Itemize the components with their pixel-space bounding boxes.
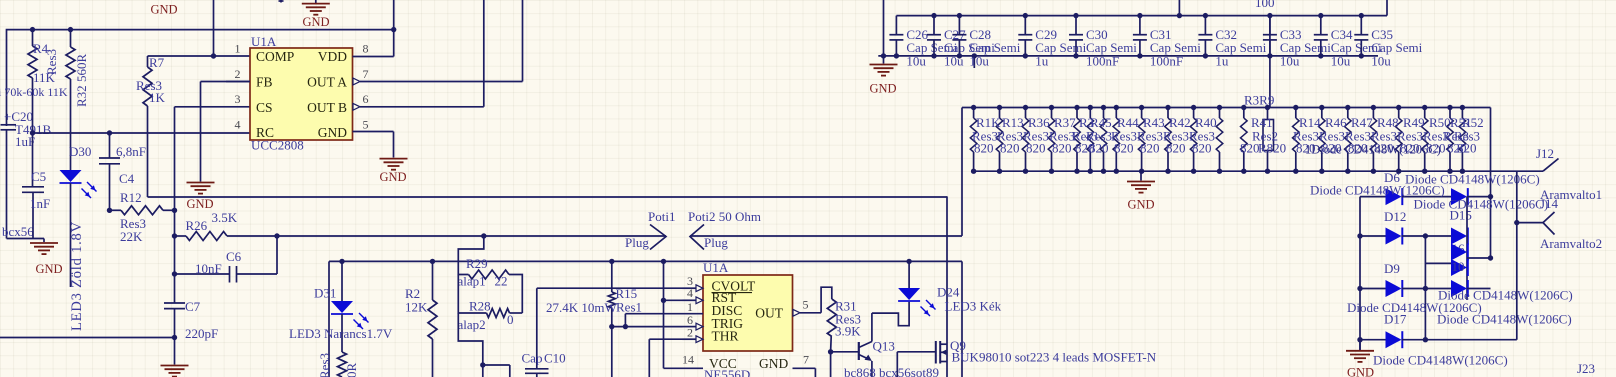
svg-text:Poti1: Poti1 bbox=[648, 209, 675, 224]
pin 8 bbox=[353, 56, 394, 58]
ground GND (U1A) bbox=[380, 158, 408, 160]
svg-text:Aramvalto2: Aramvalto2 bbox=[1540, 236, 1602, 251]
pin 4 bbox=[683, 299, 697, 301]
diode D16 bbox=[1451, 228, 1467, 245]
svg-text:VDD: VDD bbox=[318, 49, 347, 64]
diode D6 bbox=[1360, 196, 1386, 198]
svg-text:10u: 10u bbox=[1331, 54, 1351, 69]
pin 2 bbox=[683, 338, 697, 340]
wire stub below rail bbox=[973, 56, 975, 68]
svg-text:2: 2 bbox=[235, 67, 241, 81]
svg-text:R26: R26 bbox=[186, 218, 208, 233]
svg-text:4: 4 bbox=[235, 118, 241, 132]
svg-text:RC: RC bbox=[256, 125, 274, 140]
pin 5 GND bbox=[353, 131, 394, 133]
svg-text:Cap: Cap bbox=[522, 351, 543, 366]
svg-text:6: 6 bbox=[363, 92, 369, 106]
ground GND (C7) bbox=[174, 338, 176, 365]
connector J14 bbox=[1517, 222, 1543, 224]
svg-text:bcx56: bcx56 bbox=[2, 224, 34, 239]
svg-text:Plug: Plug bbox=[625, 235, 649, 250]
ground GND (res bank) bbox=[1140, 171, 1142, 180]
svg-text:COMP: COMP bbox=[256, 49, 294, 64]
wire res bank top rail bbox=[962, 107, 1491, 109]
svg-text:22: 22 bbox=[495, 274, 508, 289]
plug connector Poti1 bbox=[650, 225, 666, 250]
resistor bank R1..R52 bbox=[973, 108, 975, 119]
capacitor C34 bbox=[1320, 16, 1322, 35]
pin 5 OUT bbox=[793, 309, 800, 316]
capacitor C30 bbox=[1075, 16, 1077, 35]
svg-text:BUK98010 sot223 4 leads MOSFET: BUK98010 sot223 4 leads MOSFET-N bbox=[952, 350, 1157, 365]
svg-text:R28: R28 bbox=[469, 299, 491, 314]
wire OUT B riser bbox=[483, 0, 485, 107]
transistor Q13 bbox=[831, 351, 859, 353]
resistor R31 bbox=[821, 287, 832, 313]
svg-text:6,8nF: 6,8nF bbox=[116, 144, 146, 159]
connector J12 bbox=[1543, 159, 1559, 172]
capacitor C33 bbox=[1269, 16, 1271, 35]
svg-text:R7: R7 bbox=[149, 55, 165, 70]
wire res bank right edge bbox=[1490, 108, 1492, 197]
svg-text:Diode CD4148W(1206C): Diode CD4148W(1206C) bbox=[1414, 197, 1549, 212]
wire right edge riser bbox=[1386, 0, 1388, 16]
svg-text:GND: GND bbox=[318, 125, 347, 140]
svg-text:10u: 10u bbox=[1280, 54, 1300, 69]
svg-text:1u: 1u bbox=[1035, 54, 1049, 69]
capacitor C32 bbox=[1204, 16, 1206, 35]
wire A horizontal bbox=[148, 196, 948, 198]
svg-text:820: 820 bbox=[1089, 141, 1109, 156]
svg-text:Q13: Q13 bbox=[873, 339, 895, 354]
wire TRIG net bbox=[612, 326, 683, 328]
capacitor C29 bbox=[1024, 16, 1026, 35]
wire matrix right bbox=[1490, 197, 1492, 258]
svg-text:GND: GND bbox=[35, 262, 62, 276]
capacitor C5 bbox=[22, 186, 44, 188]
svg-text:820: 820 bbox=[1192, 141, 1212, 156]
svg-text:R3R9: R3R9 bbox=[1244, 93, 1274, 108]
transistor Q9 MOSFET bbox=[896, 352, 898, 377]
svg-text:Poti2 50 Ohm: Poti2 50 Ohm bbox=[688, 209, 761, 224]
svg-text:8: 8 bbox=[363, 42, 369, 56]
capacitor C28 bbox=[958, 16, 960, 35]
svg-text:10: 10 bbox=[1452, 259, 1465, 274]
wire matrix left drop bbox=[1359, 197, 1361, 350]
svg-text:GND: GND bbox=[869, 82, 896, 96]
svg-text:Diode CD4148W(1206C): Diode CD4148W(1206C) bbox=[1373, 353, 1508, 368]
wire RC net (pin4) bbox=[33, 132, 251, 134]
resistor R29 bbox=[458, 236, 484, 275]
svg-text:GND: GND bbox=[379, 170, 406, 184]
svg-text:0: 0 bbox=[507, 312, 514, 327]
ground GND (matrix) bbox=[1359, 340, 1361, 350]
pin 7 bbox=[793, 367, 816, 369]
svg-text:220pF: 220pF bbox=[185, 326, 218, 341]
ground GND (top) bbox=[315, 0, 317, 3]
svg-text:LED3 Narancs1.7V: LED3 Narancs1.7V bbox=[289, 326, 393, 341]
svg-text:560R: 560R bbox=[74, 54, 89, 83]
svg-text:GND: GND bbox=[1347, 366, 1374, 377]
pin 7 OUT A bbox=[353, 78, 360, 85]
svg-text:alap1: alap1 bbox=[458, 274, 486, 289]
wire R26 to plug bbox=[227, 235, 666, 237]
wire C33 riser to bank bbox=[1269, 16, 1271, 108]
node jog right bbox=[946, 196, 948, 377]
wire DISC net bbox=[624, 314, 626, 327]
svg-text:J12: J12 bbox=[1536, 146, 1554, 161]
svg-text:2: 2 bbox=[687, 326, 693, 340]
svg-text:D9: D9 bbox=[1384, 261, 1400, 276]
svg-text:12K: 12K bbox=[405, 300, 428, 315]
svg-text:U1A: U1A bbox=[251, 34, 277, 49]
wire bottom-left bbox=[0, 337, 175, 339]
svg-text:11K: 11K bbox=[33, 70, 56, 85]
pin 2 bbox=[226, 81, 250, 83]
svg-text:R820: R820 bbox=[1258, 141, 1286, 156]
wire J bus bbox=[1516, 171, 1518, 340]
capacitor C4 bbox=[109, 133, 111, 158]
wire COMP net bbox=[148, 55, 251, 57]
svg-text:D30: D30 bbox=[69, 144, 91, 159]
capacitor C7 bbox=[164, 302, 185, 304]
stub top bbox=[280, 0, 282, 3]
svg-text:4: 4 bbox=[687, 286, 693, 300]
svg-text:1Diode CD4148W(1206C): 1Diode CD4148W(1206C) bbox=[1305, 143, 1441, 157]
svg-text:820: 820 bbox=[1052, 141, 1072, 156]
svg-text:Diode CD4148W(1206C): Diode CD4148W(1206C) bbox=[1310, 183, 1445, 198]
svg-text:10u: 10u bbox=[906, 54, 926, 69]
capacitor C27 bbox=[933, 16, 935, 35]
wire THR net bbox=[649, 338, 682, 340]
svg-text:CS: CS bbox=[256, 100, 273, 115]
diode D12 bbox=[1360, 235, 1386, 237]
resistor R2 bbox=[432, 261, 434, 300]
svg-text:OUT: OUT bbox=[755, 306, 783, 321]
wire VCC riser bbox=[663, 261, 665, 368]
resistor R12 bbox=[110, 209, 122, 211]
svg-text:OUT B: OUT B bbox=[307, 100, 347, 115]
resistor R15 bbox=[611, 261, 613, 292]
diode D?b bbox=[1451, 280, 1467, 297]
svg-text:Res1: Res1 bbox=[616, 300, 642, 315]
wire OUT A riser bbox=[522, 0, 524, 82]
svg-text:820: 820 bbox=[1026, 141, 1046, 156]
svg-text:100nF: 100nF bbox=[1150, 54, 1183, 69]
capacitor C26 bbox=[895, 16, 897, 35]
resistor R28 bbox=[458, 275, 486, 314]
wire cap bank left drop bbox=[883, 0, 885, 64]
diode D9 bbox=[1360, 288, 1386, 290]
wire alap jog bbox=[458, 313, 483, 365]
pin 14 bbox=[683, 367, 704, 369]
wire res bank bottom rail bbox=[974, 170, 1543, 172]
svg-text:D12: D12 bbox=[1384, 209, 1406, 224]
wire gnd-left bbox=[7, 238, 45, 240]
svg-text:OUT A: OUT A bbox=[307, 75, 347, 90]
svg-text:1: 1 bbox=[687, 300, 693, 314]
svg-text:10u: 10u bbox=[969, 54, 989, 69]
svg-text:C5: C5 bbox=[31, 169, 46, 184]
svg-text:VCC: VCC bbox=[709, 356, 737, 371]
svg-text:3.5K: 3.5K bbox=[212, 210, 238, 225]
svg-text:22K: 22K bbox=[120, 229, 143, 244]
ground GND (cap bank) bbox=[870, 64, 898, 66]
svg-text:LED3 Zöld 1.8V: LED3 Zöld 1.8V bbox=[69, 221, 85, 331]
svg-text:1nF: 1nF bbox=[30, 196, 50, 211]
pin 1 bbox=[683, 313, 704, 315]
svg-text:R32: R32 bbox=[74, 85, 89, 107]
svg-text:5: 5 bbox=[363, 118, 369, 132]
svg-text:820: 820 bbox=[1114, 141, 1134, 156]
svg-text:THR: THR bbox=[712, 328, 739, 343]
LED D31 bbox=[341, 261, 343, 301]
svg-text:820: 820 bbox=[974, 141, 994, 156]
svg-text:J23: J23 bbox=[1577, 361, 1595, 376]
capacitor C6 bbox=[175, 273, 230, 275]
svg-text:1u: 1u bbox=[1215, 54, 1229, 69]
LED D24 bbox=[908, 261, 910, 288]
svg-text:7: 7 bbox=[363, 67, 369, 81]
svg-text:D31: D31 bbox=[314, 286, 336, 301]
svg-text:bc868 bcx56sot89: bc868 bcx56sot89 bbox=[844, 365, 939, 377]
capacitor C31 bbox=[1139, 16, 1141, 35]
wire B horizontal bbox=[329, 260, 962, 262]
svg-text:3.9K: 3.9K bbox=[835, 324, 861, 339]
svg-text:GND: GND bbox=[759, 356, 788, 371]
svg-text:820: 820 bbox=[1000, 141, 1020, 156]
wire top-left net bbox=[7, 30, 394, 126]
svg-text:alap2: alap2 bbox=[458, 317, 486, 332]
resistor R7 bbox=[147, 56, 149, 67]
pin 6 bbox=[683, 326, 697, 328]
svg-text:820: 820 bbox=[1240, 141, 1260, 156]
resistor R32 bbox=[70, 30, 72, 47]
svg-text:GND: GND bbox=[186, 197, 213, 211]
svg-text:C10: C10 bbox=[544, 351, 566, 366]
svg-text:R29: R29 bbox=[466, 256, 488, 271]
op-amp U1A UCC2808 bbox=[250, 48, 353, 140]
pin 3 bbox=[683, 287, 697, 289]
wire riser 100-label bbox=[1178, 0, 1180, 16]
svg-text:J14: J14 bbox=[1540, 196, 1559, 211]
diode stack mid bbox=[1451, 244, 1467, 261]
svg-text:1K: 1K bbox=[149, 90, 166, 105]
svg-text:GND: GND bbox=[302, 15, 329, 29]
ground GND (left) bbox=[30, 242, 58, 244]
plug connector Poti2 bbox=[690, 225, 704, 250]
ground GND (mid) bbox=[187, 182, 215, 184]
pin 6 OUT B bbox=[353, 103, 360, 110]
wire Q13 collector to D24 bbox=[872, 302, 909, 326]
svg-text:14: 14 bbox=[682, 353, 694, 367]
resistor R26 bbox=[186, 232, 227, 241]
resistor R39 (box) bbox=[1263, 120, 1274, 151]
timer U1A NE556D bbox=[703, 275, 793, 351]
svg-text:D24: D24 bbox=[937, 285, 960, 300]
svg-text:10nF: 10nF bbox=[195, 261, 222, 276]
capacitor C20 bbox=[1, 124, 17, 126]
svg-text:820: 820 bbox=[1140, 141, 1160, 156]
svg-text:C6: C6 bbox=[226, 249, 242, 264]
wire plug net right bbox=[690, 235, 962, 237]
wire B left drop bbox=[328, 261, 330, 377]
svg-text:100: 100 bbox=[1255, 0, 1275, 10]
svg-text:7: 7 bbox=[803, 353, 809, 367]
svg-text:C4: C4 bbox=[119, 171, 135, 186]
svg-text:FB: FB bbox=[256, 75, 273, 90]
svg-text:820: 820 bbox=[1457, 141, 1477, 156]
capacitor C10 bbox=[525, 368, 549, 370]
svg-text:Plug: Plug bbox=[704, 235, 728, 250]
wire cap bank bottom rail bbox=[878, 55, 1378, 57]
svg-text:Res3: Res3 bbox=[317, 353, 332, 377]
wire cap bank top rail bbox=[896, 15, 1387, 17]
resistor R4 bbox=[32, 30, 34, 46]
svg-text:1: 1 bbox=[235, 42, 241, 56]
svg-text:5: 5 bbox=[803, 298, 809, 312]
svg-text:Diode CD4148W(1206C): Diode CD4148W(1206C) bbox=[1437, 312, 1572, 327]
svg-text:C7: C7 bbox=[185, 299, 201, 314]
svg-text:100nF: 100nF bbox=[1086, 54, 1119, 69]
resistor R30 bbox=[338, 352, 347, 377]
svg-text:U1A: U1A bbox=[703, 260, 729, 275]
diode D15 bbox=[1451, 188, 1467, 205]
wire CVOLT net bbox=[537, 287, 683, 289]
svg-text:i 70k-60k 11K: i 70k-60k 11K bbox=[0, 85, 68, 99]
svg-text:820: 820 bbox=[1166, 141, 1186, 156]
svg-text:3: 3 bbox=[235, 92, 241, 106]
svg-text:GND: GND bbox=[150, 3, 177, 17]
wire CS rail bbox=[174, 107, 176, 303]
wire FB net bbox=[201, 81, 251, 83]
svg-text:27.4K 10mW: 27.4K 10mW bbox=[546, 300, 618, 315]
svg-text:LED3 Kék: LED3 Kék bbox=[945, 299, 1002, 314]
diode D17 bbox=[1360, 339, 1386, 341]
svg-text:GND: GND bbox=[1127, 198, 1154, 212]
svg-text:10u: 10u bbox=[1371, 54, 1391, 69]
svg-text:0R: 0R bbox=[344, 363, 359, 377]
LED D30 bbox=[70, 79, 72, 170]
svg-text:R12: R12 bbox=[120, 190, 142, 205]
capacitor C35 bbox=[1360, 16, 1362, 35]
